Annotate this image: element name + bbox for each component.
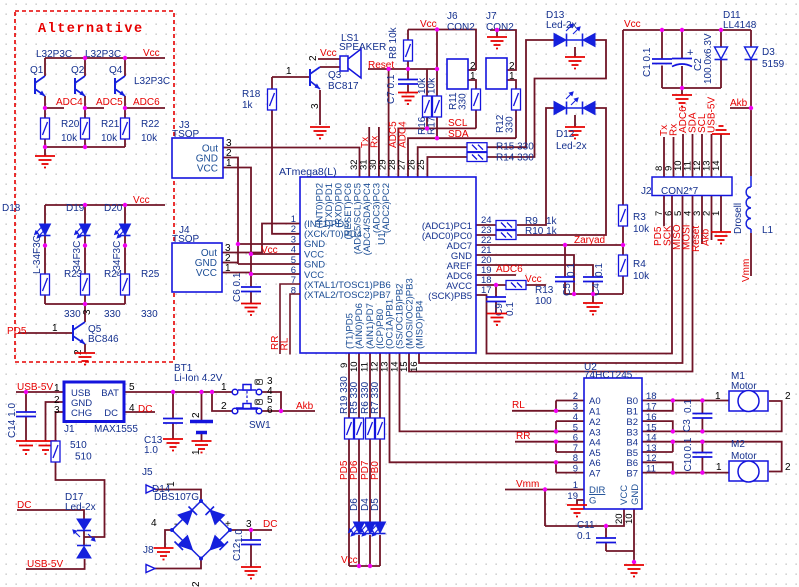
- wire C9 hang: [495, 285, 497, 313]
- wire J4 out to pin1: [222, 224, 300, 253]
- transistor Q4: [115, 76, 125, 96]
- wire J3 out to pin32: [223, 148, 360, 178]
- svg-text:B4: B4: [626, 438, 638, 449]
- wire tie B0B1: [642, 401, 673, 411]
- wire DC pin4 stub: [124, 411, 155, 413]
- svg-text:LL4148: LL4148: [723, 20, 757, 31]
- wire D17 mid: [83, 530, 85, 546]
- wire D13 gnd stem: [574, 47, 576, 57]
- wire pin13 to U2 row8: [390, 353, 585, 462]
- svg-text:0.1: 0.1: [683, 399, 694, 413]
- svg-text:L1: L1: [762, 225, 774, 236]
- wire Q5 emitter: [84, 344, 86, 353]
- wire C11 stems: [606, 526, 634, 551]
- wire R10 lead: [476, 234, 496, 236]
- svg-text:R4: R4: [633, 259, 646, 270]
- svg-text:8: 8: [291, 286, 296, 297]
- wire Vcc top mid rail: [408, 30, 476, 71]
- svg-text:R25: R25: [141, 269, 160, 280]
- capacitor C10: [692, 453, 712, 458]
- svg-text:-: -: [174, 519, 177, 530]
- svg-text:B0: B0: [626, 396, 638, 407]
- svg-text:2: 2: [308, 55, 319, 61]
- svg-text:J2: J2: [641, 186, 652, 197]
- IC J1 MAX1555: [64, 382, 124, 422]
- wire Q3 base: [272, 76, 310, 78]
- svg-text:3: 3: [310, 103, 321, 109]
- svg-text:1: 1: [573, 480, 578, 491]
- svg-text:R3: R3: [633, 212, 646, 223]
- led pair D13: [554, 24, 595, 47]
- svg-text:RL: RL: [280, 337, 291, 350]
- wire R8 leads: [407, 30, 409, 70]
- svg-text:Vcc: Vcc: [143, 48, 160, 59]
- svg-text:RR: RR: [516, 431, 530, 442]
- svg-text:10k: 10k: [61, 133, 78, 144]
- wire R18 column to pin2: [272, 77, 300, 234]
- svg-text:4: 4: [151, 518, 157, 529]
- wire 510 bottom to D17: [56, 462, 105, 537]
- resistor R25: [121, 274, 130, 295]
- wire gnd stem mid right: [592, 294, 594, 303]
- wire RL stub: [512, 410, 584, 412]
- svg-text:10: 10: [624, 513, 635, 524]
- wire J4 gnd lead: [222, 262, 238, 264]
- wire Vmm down to C11 row: [544, 490, 546, 527]
- wire Vmm dir: [505, 489, 584, 491]
- diode D3: [745, 47, 758, 60]
- svg-text:TSOP: TSOP: [172, 234, 200, 245]
- svg-text:L32P3C: L32P3C: [134, 76, 170, 87]
- wire R10 to D12 right: [517, 108, 606, 235]
- svg-text:8: 8: [573, 453, 578, 464]
- LED D20: [115, 224, 131, 238]
- svg-text:+: +: [225, 519, 231, 530]
- capacitor C9: [486, 297, 506, 302]
- connector J6 CON2: [447, 59, 468, 89]
- svg-text:510: 510: [75, 452, 92, 463]
- wire R13 right vcc stub: [526, 284, 546, 286]
- wire R16 bottom to SCL: [426, 118, 428, 129]
- connector J7 CON2: [486, 58, 507, 89]
- wire Akb stub: [730, 107, 751, 109]
- resistor R19: [345, 418, 354, 439]
- ground C11: [624, 565, 644, 577]
- wire C10 stems: [701, 442, 703, 473]
- J2 bottom pin numbers: [654, 211, 722, 216]
- svg-text:DC: DC: [104, 408, 118, 419]
- svg-text:Vcc: Vcc: [624, 19, 641, 30]
- wire J6 pin1 to R11: [468, 80, 476, 89]
- svg-text:CON2: CON2: [447, 22, 475, 33]
- svg-text:Rx: Rx: [370, 136, 381, 148]
- svg-text:Led-2x: Led-2x: [65, 502, 96, 513]
- wire USB-5V to J1: [16, 391, 64, 393]
- chip top pin names: [315, 183, 393, 255]
- wire ADC4 stub: [45, 96, 64, 118]
- svg-text:USB-5V: USB-5V: [17, 382, 53, 393]
- svg-text:Vcc: Vcc: [320, 48, 337, 59]
- svg-text:10k: 10k: [633, 271, 650, 282]
- svg-text:Vmm: Vmm: [741, 259, 752, 282]
- wire Zaryad pin22: [476, 244, 623, 246]
- svg-text:C12: C12: [232, 542, 243, 561]
- svg-text:16: 16: [409, 361, 420, 372]
- svg-text:Vcc: Vcc: [341, 555, 358, 566]
- svg-text:2: 2: [573, 391, 578, 402]
- svg-text:L-34F3C: L-34F3C: [32, 235, 43, 274]
- wire DC to D17: [17, 510, 84, 519]
- ground J1 pin2: [39, 446, 53, 455]
- svg-text:3: 3: [573, 402, 578, 413]
- svg-text:5: 5: [129, 382, 135, 393]
- ground C9: [487, 314, 507, 326]
- svg-text:Akb: Akb: [730, 98, 748, 109]
- ground Q5: [75, 353, 95, 365]
- resistor R15: [467, 143, 487, 152]
- resistor R3: [619, 205, 628, 226]
- diode D11: [715, 47, 728, 60]
- svg-text:1: 1: [715, 391, 721, 402]
- wire pin10 down: [633, 509, 635, 565]
- wire R14 right to D13 right: [487, 40, 606, 157]
- svg-text:+: +: [687, 47, 693, 59]
- LED D5: [370, 522, 386, 536]
- svg-text:GND: GND: [630, 484, 641, 505]
- wire RR stub: [515, 442, 584, 452]
- wire pin21 to gnd rail: [476, 255, 574, 294]
- wire C4 bottom: [592, 282, 594, 295]
- wire Q3 emitter down: [319, 90, 321, 125]
- wire Q5 collector: [84, 304, 86, 322]
- wire C13 stems: [172, 392, 174, 439]
- ground alt resistors: [35, 156, 55, 168]
- svg-text:J5: J5: [142, 467, 153, 478]
- wire J7 gnd rail: [490, 30, 516, 70]
- svg-text:SDA: SDA: [448, 129, 469, 140]
- resistor R13: [506, 281, 526, 290]
- svg-text:R18: R18: [242, 89, 261, 100]
- J2 bottom net labels: [653, 224, 712, 252]
- wire D3 leads: [750, 30, 752, 108]
- ground Q3: [310, 127, 330, 139]
- svg-text:R21: R21: [101, 119, 120, 130]
- wire C11 row: [545, 509, 624, 526]
- node RR stub left chip: [280, 284, 300, 354]
- svg-text:330: 330: [141, 309, 158, 320]
- wire Reset net: [368, 68, 437, 70]
- svg-text:2: 2: [73, 349, 84, 355]
- svg-text:A4: A4: [589, 438, 601, 449]
- resistor 510: [51, 441, 60, 462]
- wire D3 to L1: [750, 108, 752, 176]
- capacitor C14: [16, 412, 36, 417]
- wire J5 pin to bridge: [155, 490, 201, 502]
- svg-text:10k: 10k: [427, 77, 438, 94]
- svg-text:D3: D3: [762, 47, 775, 58]
- wire pin17 SCK route: [476, 196, 672, 354]
- wire B6 row to M2: [642, 462, 673, 472]
- svg-text:2: 2: [191, 412, 202, 418]
- svg-text:1: 1: [470, 71, 476, 82]
- svg-text:4: 4: [573, 412, 578, 423]
- svg-text:R15 330: R15 330: [496, 142, 534, 153]
- wire R3 bottom: [622, 226, 624, 245]
- svg-text:Led-2x: Led-2x: [556, 141, 587, 152]
- svg-text:1: 1: [711, 211, 722, 216]
- svg-text:10: 10: [349, 361, 360, 372]
- svg-text:1: 1: [226, 158, 232, 169]
- wire J2 MISO long: [419, 196, 683, 364]
- svg-text:1.0: 1.0: [144, 445, 158, 456]
- wire BAT row: [124, 391, 233, 393]
- resistor R24: [81, 274, 90, 295]
- svg-text:R20: R20: [61, 119, 80, 130]
- svg-text:ADC4: ADC4: [398, 121, 409, 148]
- wire R16 R17 pullup columns: [427, 30, 437, 97]
- ground C1C2: [672, 95, 692, 107]
- svg-text:Li-Ion 4.2V: Li-Ion 4.2V: [174, 373, 223, 384]
- LED D6: [349, 522, 365, 536]
- svg-text:25: 25: [416, 159, 427, 170]
- resistor R11: [472, 89, 481, 110]
- svg-text:330: 330: [64, 309, 81, 320]
- wire tie U2 p8p9: [556, 462, 584, 472]
- wire R17 bottom to SDA: [436, 118, 438, 139]
- wire C12 stems: [250, 530, 252, 567]
- wire J7 gnd stem: [496, 30, 498, 37]
- connector J3 TSOP: [172, 138, 223, 178]
- svg-text:DBS107G: DBS107G: [154, 492, 199, 503]
- svg-text:A1: A1: [589, 407, 601, 418]
- junction dots alt bottom rail: [43, 145, 47, 149]
- wire J2 MOSI long: [409, 196, 693, 372]
- wire Q3 collector to speaker: [320, 66, 340, 68]
- svg-text:C1 0.1: C1 0.1: [642, 47, 653, 77]
- svg-text:ADC5: ADC5: [96, 97, 123, 108]
- svg-text:12: 12: [646, 453, 657, 464]
- wire Vcc rail top right: [623, 29, 751, 31]
- svg-text:(ADC2)PC2: (ADC2)PC2: [381, 183, 392, 233]
- motor M2: [729, 461, 768, 482]
- wire C6 hang: [250, 274, 252, 304]
- wire L1 bottom to Vmm: [750, 233, 752, 276]
- wire R15 right to D13 left: [487, 40, 554, 147]
- wire R15 from pin26: [418, 147, 467, 177]
- transistor Q5: [73, 322, 85, 344]
- svg-text:DC: DC: [17, 500, 31, 511]
- wire ADC5 stub: [85, 96, 104, 118]
- svg-text:G: G: [589, 496, 596, 507]
- resistor R22: [121, 118, 130, 139]
- svg-text:SPEAKER: SPEAKER: [339, 42, 386, 53]
- wire bridge left to gnd: [165, 530, 172, 548]
- svg-text:19: 19: [567, 491, 578, 502]
- op-amp U1 ATmega8 body: [300, 177, 476, 353]
- svg-text:Led-2x: Led-2x: [546, 20, 577, 31]
- speaker LS1: [340, 49, 361, 78]
- ground J2 pin14 top: [712, 126, 730, 134]
- svg-text:(XTAL2/TOSC2)PB7: (XTAL2/TOSC2)PB7: [304, 290, 391, 301]
- svg-text:2: 2: [191, 581, 202, 587]
- ground mid right rail: [583, 303, 603, 315]
- svg-text:10k: 10k: [633, 224, 650, 235]
- connector J4 TSOP: [172, 243, 222, 292]
- inductor L1: [746, 176, 751, 233]
- svg-text:Motor: Motor: [731, 451, 757, 462]
- svg-text:1: 1: [225, 263, 231, 274]
- ground C14: [19, 446, 33, 455]
- connector J8 pin: [146, 565, 155, 573]
- svg-text:D12: D12: [556, 129, 575, 140]
- wire J1 pin3 to 510: [56, 412, 65, 441]
- svg-text:A6: A6: [589, 458, 601, 469]
- svg-text:ATmega8(L): ATmega8(L): [279, 166, 337, 178]
- motor M1: [729, 391, 768, 412]
- wire pin19 ADC6 stub: [476, 274, 516, 276]
- svg-text:GND: GND: [304, 239, 325, 250]
- svg-text:10k: 10k: [101, 133, 118, 144]
- wire B0 row to M1: [642, 400, 729, 402]
- chip left pin names: [304, 219, 391, 301]
- svg-text:Vcc: Vcc: [261, 245, 278, 256]
- ground BT1: [192, 441, 212, 453]
- wire SCL from pin28: [398, 128, 476, 177]
- wire C5 hang: [564, 245, 566, 294]
- capacitor C11: [596, 538, 616, 543]
- wire Tx stub pin31: [368, 127, 370, 177]
- svg-text:Zaryad: Zaryad: [574, 235, 605, 246]
- capacitor C6: [241, 287, 261, 292]
- resistor R20: [41, 118, 50, 139]
- svg-text:14: 14: [711, 160, 722, 171]
- svg-text:ADC4: ADC4: [56, 97, 83, 108]
- svg-text:74HCT245: 74HCT245: [584, 370, 633, 381]
- wire LED bottoms: [45, 236, 125, 274]
- svg-text:CON2*7: CON2*7: [661, 186, 699, 197]
- svg-text:Akb: Akb: [701, 228, 712, 246]
- wire tie U2 p2p3: [556, 401, 584, 411]
- svg-text:D19: D19: [66, 203, 85, 214]
- svg-text:ADC6: ADC6: [133, 97, 160, 108]
- chip top pin numbers: [349, 159, 427, 170]
- svg-text:R13: R13: [535, 285, 554, 296]
- svg-text:1: 1: [716, 462, 722, 473]
- wire pin20 to C4: [476, 265, 593, 277]
- ground C12: [241, 567, 261, 579]
- ground rail J1: [16, 440, 57, 442]
- svg-text:17: 17: [481, 285, 492, 296]
- svg-text:Akb: Akb: [296, 401, 314, 412]
- connector J2 CON2*7: [652, 177, 732, 196]
- wire bridge right DC: [230, 529, 272, 531]
- svg-text:C6 0.1: C6 0.1: [232, 272, 243, 302]
- svg-text:USB-5V: USB-5V: [707, 97, 718, 133]
- resistor R14: [467, 153, 487, 162]
- resistor R18: [268, 89, 277, 110]
- wire J4 vcc lead: [222, 272, 251, 274]
- led pair D12: [554, 92, 595, 115]
- svg-text:PD5: PD5: [7, 326, 27, 337]
- wire resistor bottoms to rail: [45, 139, 125, 156]
- wire SW1 right side: [261, 392, 315, 411]
- wire C3 stems: [701, 401, 703, 432]
- wire J8 pin to bridge bottom: [151, 559, 201, 569]
- svg-text:R8 10k: R8 10k: [388, 26, 399, 59]
- svg-text:1: 1: [509, 71, 515, 82]
- svg-text:R14 330: R14 330: [496, 153, 534, 164]
- svg-text:PD6: PD6: [349, 460, 360, 480]
- IC U2 74HCT245: [584, 378, 642, 509]
- svg-text:MAX1555: MAX1555: [94, 424, 138, 435]
- svg-text:PB0: PB0: [370, 461, 381, 480]
- ground J7: [487, 37, 507, 49]
- svg-text:2: 2: [221, 401, 227, 412]
- svg-text:TSOP: TSOP: [172, 129, 200, 140]
- svg-text:VCC: VCC: [197, 164, 218, 175]
- svg-text:5159: 5159: [762, 59, 785, 70]
- wire R9 lead: [476, 224, 496, 226]
- svg-text:1: 1: [221, 382, 227, 393]
- svg-text:10k: 10k: [141, 133, 158, 144]
- resistor R4: [619, 255, 628, 276]
- svg-text:R5 330: R5 330: [349, 381, 360, 414]
- svg-text:9: 9: [573, 464, 578, 475]
- svg-text:RL: RL: [512, 400, 525, 411]
- wire C1 stems: [661, 30, 663, 88]
- wire J3 gnd column: [223, 158, 300, 265]
- svg-text:2: 2: [785, 462, 791, 473]
- svg-text:D20: D20: [104, 203, 123, 214]
- svg-text:0.1: 0.1: [683, 437, 694, 451]
- ground C13: [163, 439, 183, 451]
- svg-text:C14 1.0: C14 1.0: [7, 403, 18, 438]
- capacitor C2 polarized: [672, 59, 692, 67]
- ground D13: [565, 57, 585, 69]
- capacitor C12: [241, 540, 261, 545]
- resistor R17: [433, 96, 442, 117]
- wire chip bottom stubs 9-12: [349, 353, 380, 418]
- svg-text:R10 1k: R10 1k: [525, 226, 558, 237]
- LED D19: [75, 224, 91, 238]
- svg-text:J7: J7: [486, 11, 497, 22]
- svg-text:Q4: Q4: [109, 65, 123, 76]
- svg-text:B1: B1: [626, 407, 638, 418]
- svg-text:Vcc: Vcc: [133, 195, 150, 206]
- svg-text:16: 16: [646, 412, 657, 423]
- svg-text:11: 11: [646, 464, 656, 475]
- svg-text:Vmm: Vmm: [516, 479, 539, 490]
- svg-text:B2: B2: [626, 417, 638, 428]
- svg-text:(MISO)PB4: (MISO)PB4: [415, 300, 426, 349]
- svg-text:C5: C5: [562, 283, 573, 296]
- U2 right pin numbers: [646, 391, 657, 475]
- wire Q5 base: [18, 332, 73, 334]
- svg-text:Q1: Q1: [30, 65, 44, 76]
- U2 left pin numbers: [567, 391, 578, 502]
- resistor R9: [496, 221, 516, 230]
- svg-text:3: 3: [82, 309, 93, 315]
- svg-text:4: 4: [291, 245, 296, 256]
- svg-text:C3: C3: [682, 419, 693, 432]
- wire C7 hang: [407, 69, 409, 93]
- svg-text:3: 3: [54, 405, 60, 416]
- svg-text:SCL: SCL: [448, 118, 468, 129]
- chip left pin numbers: [291, 214, 296, 297]
- svg-text:C11: C11: [577, 520, 595, 531]
- wire pin14 to U2 row4: [400, 353, 585, 431]
- svg-text:C7 0.1: C7 0.1: [386, 74, 397, 104]
